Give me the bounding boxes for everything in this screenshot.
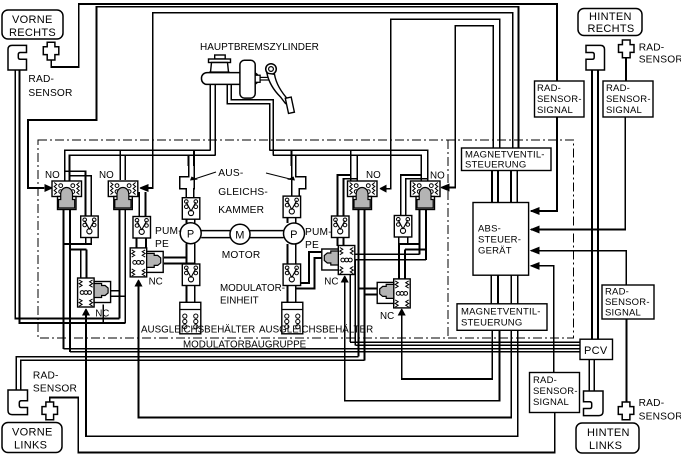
valve NC-a <box>78 278 111 307</box>
svg-text:MODULATORBAUGRUPPE: MODULATORBAUGRUPPE <box>183 340 307 351</box>
arrow into ABS 3 <box>531 247 539 253</box>
svg-text:SENSOR: SENSOR <box>28 88 72 99</box>
valve NO1 <box>52 181 82 210</box>
box VORNE LINKS <box>2 423 62 453</box>
arrow into NO2 <box>140 185 148 191</box>
pipe pump P2 column <box>287 216 289 223</box>
label NC-d <box>380 311 394 322</box>
svg-text:SIGNAL: SIGNAL <box>537 105 573 116</box>
brake pipe branch to NO2 <box>119 150 121 180</box>
wire NC-c solenoid control <box>345 282 500 401</box>
svg-text:SIGNAL: SIGNAL <box>533 397 569 408</box>
motor and pump shafts <box>201 231 283 238</box>
svg-text:RAD-: RAD- <box>537 83 561 94</box>
booster <box>240 60 255 98</box>
box HINTEN RECHTS <box>578 9 642 36</box>
pipe NC-b outlet to reservoir trunk <box>164 257 187 259</box>
svg-text:STEUERUNG: STEUERUNG <box>465 160 526 171</box>
svg-text:PCV: PCV <box>584 345 608 357</box>
svg-text:MODULATOR-: MODULATOR- <box>220 283 285 294</box>
svg-text:RAD-: RAD- <box>606 83 630 94</box>
arrow into NO1 <box>44 185 52 191</box>
pipe NO2 outlet down to front-right wheel line <box>119 210 121 319</box>
label NC-c <box>324 277 338 288</box>
label RAD-SENSOR rear-right <box>639 43 681 66</box>
label MODULATOR-EINHEIT <box>220 283 285 307</box>
svg-text:NC: NC <box>324 277 338 288</box>
brake pipe branch to NO3 <box>350 150 352 181</box>
wire NO2 solenoid control <box>148 13 513 188</box>
svg-text:RECHTS: RECHTS <box>9 27 56 39</box>
svg-text:HAUPTBREMSZYLINDER: HAUPTBREMSZYLINDER <box>200 42 319 53</box>
control arrows into valves <box>44 184 539 315</box>
svg-text:SENSOR-: SENSOR- <box>537 94 582 105</box>
svg-text:P: P <box>187 229 195 241</box>
pipe NO4 outlet down to rear feed rail <box>419 210 421 255</box>
brake pipe left rail to NO1 <box>65 150 211 181</box>
svg-text:KAMMER: KAMMER <box>218 205 264 216</box>
svg-text:NC: NC <box>380 311 394 322</box>
brake pipe master cylinder port 1 down to left valve rail <box>209 85 211 151</box>
label NC-a <box>95 309 109 320</box>
label NO1 <box>45 170 60 181</box>
svg-text:RAD-: RAD- <box>33 371 59 382</box>
wires ABS unit to lower Magnetventilsteuerung <box>490 275 492 304</box>
pipe branch to left compensation chamber <box>188 155 190 166</box>
svg-text:MOTOR: MOTOR <box>222 250 261 261</box>
box ABS-STEUER-GERAET <box>473 203 529 276</box>
pipe NC-a outlet tie to wheel line <box>108 290 120 292</box>
box MAGNETVENTILSTEUERUNG bottom <box>457 304 547 331</box>
svg-text:SENSOR: SENSOR <box>639 412 681 423</box>
pipe NC-d outlet tie <box>359 288 380 290</box>
svg-text:M: M <box>235 230 244 242</box>
svg-text:HINTEN: HINTEN <box>589 11 632 23</box>
arrow into NO4 <box>441 184 450 190</box>
svg-text:AUSGLEICHSBEHÄLTER: AUSGLEICHSBEHÄLTER <box>141 325 255 336</box>
wire NC-a solenoid control <box>86 315 518 436</box>
sensor plus rear right <box>619 40 635 58</box>
box RAD-SENSOR-SIGNAL rear-right <box>603 81 653 117</box>
svg-text:VORNE: VORNE <box>12 14 53 26</box>
svg-text:SENSOR: SENSOR <box>639 55 681 66</box>
svg-text:SENSOR-: SENSOR- <box>605 297 650 308</box>
wire rear-right sensor to signal box <box>625 58 627 81</box>
arrow into NC-d <box>399 309 405 315</box>
reservoir left <box>180 302 201 334</box>
arrow into ABS 2 <box>531 226 539 232</box>
wire NO4 solenoid control <box>449 26 493 188</box>
label NO2 <box>99 170 114 181</box>
svg-text:PUM-: PUM- <box>155 226 182 237</box>
svg-text:PUM-: PUM- <box>305 227 332 238</box>
wire front-right sensor signal box to ABS arrow <box>531 117 557 211</box>
pipe NO1 outlet down with branch to check A and NC-a <box>63 210 65 349</box>
pushrod <box>255 75 260 82</box>
svg-text:NO: NO <box>366 170 381 181</box>
wire front-right sensor to ABS (top run) <box>51 4 557 81</box>
box VORNE RECHTS <box>2 10 63 39</box>
pipe NO3 outlet down to front-left wheel line <box>358 210 360 357</box>
svg-text:NO: NO <box>99 170 114 181</box>
svg-text:NO: NO <box>45 170 60 181</box>
brake pipe right rail to NO4 <box>270 150 428 181</box>
pipe check A to NO1 inlet rail <box>65 171 86 216</box>
svg-text:VORNE: VORNE <box>12 427 53 439</box>
wire rear-left sensor to signal box <box>626 319 628 402</box>
valve NO3 <box>348 181 378 210</box>
pipe rear feed rail to down pair <box>350 254 419 342</box>
sensor plus rear left <box>618 402 634 420</box>
svg-text:AUS-: AUS- <box>218 168 243 179</box>
dash-dot divider between modulator and ECU sections <box>447 140 449 338</box>
svg-text:LINKS: LINKS <box>14 440 47 452</box>
hook wheel front left <box>8 390 28 415</box>
svg-text:STEUER-: STEUER- <box>478 235 521 246</box>
pipe check B up to NO2 <box>138 192 140 216</box>
pipe rear-right wheel to PCV top <box>591 70 593 339</box>
svg-text:RAD-: RAD- <box>28 74 54 85</box>
box RAD-SENSOR-SIGNAL front-right <box>535 81 585 117</box>
check valve D <box>394 216 412 238</box>
pipe check C to NC-c connector <box>337 238 339 246</box>
pipe rear circuit lines into PCV <box>350 341 580 343</box>
wires Magnetventilsteuerung top to ABS unit <box>491 170 493 202</box>
dash-dot border MODULATORBAUGRUPPE <box>38 140 574 338</box>
svg-text:P: P <box>290 229 298 241</box>
check valve A <box>81 216 99 238</box>
arrow into NC-b <box>135 280 141 286</box>
pipe PCV bottom to rear-left wheel <box>588 360 590 392</box>
valve NC-b <box>130 248 163 277</box>
check valve C <box>332 216 350 238</box>
wire front-left signal box to ABS arrow <box>531 266 554 373</box>
valve NO4 <box>411 181 441 210</box>
wire NC-d solenoid control <box>402 315 493 379</box>
pump P1 <box>180 223 201 244</box>
pump P2 <box>284 223 305 244</box>
compensation chamber right <box>292 166 306 196</box>
arrow into NC-c <box>342 276 348 282</box>
box MAGNETVENTILSTEUERUNG top <box>462 148 552 171</box>
label NO3 <box>366 170 381 181</box>
svg-text:RAD-: RAD- <box>639 43 665 54</box>
compensation chamber left <box>180 166 194 198</box>
box RAD-SENSOR-SIGNAL rear-left <box>602 285 654 319</box>
label NC-b <box>149 277 163 288</box>
svg-text:SENSOR: SENSOR <box>33 384 77 395</box>
arrow into ABS 4 <box>531 263 539 269</box>
valve NC-c <box>322 246 355 275</box>
label RAD-SENSOR rear-left <box>639 398 681 423</box>
wire NC-b solenoid control <box>139 286 512 418</box>
svg-text:AUSGLEICHSBEHÄLTER: AUSGLEICHSBEHÄLTER <box>259 325 373 336</box>
wire rear-left signal box to ABS arrow <box>531 251 626 285</box>
pipe check C to NO3 inlet rail <box>338 175 351 216</box>
pipe NC-c outlet to right reservoir trunk <box>296 252 322 283</box>
svg-text:SIGNAL: SIGNAL <box>605 308 641 319</box>
pipe check B to NC-b connector <box>136 238 138 248</box>
svg-text:NC: NC <box>149 277 163 288</box>
check valve pump1 bottom <box>182 264 200 286</box>
svg-text:PE: PE <box>305 240 319 251</box>
label MOTOR <box>222 250 261 261</box>
pipe pump P1 column <box>186 219 188 223</box>
pedal pad <box>285 97 294 113</box>
check valve pump2 bottom <box>283 264 301 286</box>
valve NO2 <box>108 181 138 210</box>
hook wheel rear left <box>584 391 604 416</box>
label MODULATORBAUGRUPPE <box>183 340 307 351</box>
arrow into NO3 <box>380 185 386 191</box>
svg-text:NC: NC <box>95 309 109 320</box>
svg-text:SIGNAL: SIGNAL <box>606 105 642 116</box>
cylinder body <box>202 73 259 85</box>
check valve B <box>133 217 151 239</box>
label PUMPE right <box>305 227 332 251</box>
hook wheel front right <box>8 45 27 70</box>
wire front-left sensor to signal box <box>50 398 555 453</box>
svg-text:SENSOR-: SENSOR- <box>533 386 578 397</box>
brake pipe master cylinder port 2 jog to right rail <box>227 85 269 151</box>
motor M <box>230 224 250 244</box>
label AUSGLEICHSBEHAELTER right <box>259 325 373 336</box>
arrow into ABS 1 <box>531 208 539 214</box>
svg-text:STEUERUNG: STEUERUNG <box>461 318 522 329</box>
svg-text:EINHEIT: EINHEIT <box>220 296 259 307</box>
box PCV <box>580 339 613 359</box>
label NO4 <box>430 171 445 182</box>
svg-text:RAD-: RAD- <box>605 287 629 298</box>
label PUMPE left <box>155 226 182 250</box>
label RAD-SENSOR front-right <box>28 74 72 99</box>
sensor plus front left <box>42 402 58 420</box>
svg-text:GLEICHS-: GLEICHS- <box>218 187 268 198</box>
label RAD-SENSOR front-left <box>33 371 77 395</box>
sensor plus front right <box>43 42 59 60</box>
hook wheel rear right <box>586 45 605 70</box>
box RAD-SENSOR-SIGNAL front-left <box>530 373 580 413</box>
pipe front-left wheel line <box>16 357 358 390</box>
label AUSGLEICHSBEHAELTER left <box>141 325 255 336</box>
svg-text:RAD-: RAD- <box>533 375 557 386</box>
pipe check D to NO4 inlet rail <box>401 175 422 216</box>
svg-text:PE: PE <box>155 239 169 250</box>
pedal arm <box>267 73 289 103</box>
check valve pump2 top <box>283 196 301 218</box>
master brake cylinder assembly <box>200 42 319 113</box>
label AUSGLEICHSKAMMER with arrows <box>190 168 295 216</box>
wire NO1 solenoid control from Magnetventilsteuerung <box>28 7 519 188</box>
pipe branch to right compensation chamber <box>295 155 297 166</box>
box HINTEN LINKS <box>576 423 639 453</box>
svg-text:RECHTS: RECHTS <box>588 23 635 35</box>
svg-text:HINTEN: HINTEN <box>587 427 630 439</box>
svg-text:MAGNETVENTIL-: MAGNETVENTIL- <box>461 307 541 318</box>
reservoir right <box>282 302 303 334</box>
pipe check D and NC-d connectors <box>398 237 400 244</box>
pedal pivot <box>266 64 277 75</box>
valve NC-d <box>377 279 410 308</box>
arrow into NC-a <box>83 309 89 315</box>
svg-text:RAD-: RAD- <box>639 398 665 409</box>
svg-text:LINKS: LINKS <box>589 440 622 452</box>
wire rear-right signal box to ABS arrow <box>531 117 625 230</box>
check valve pump1 top <box>182 198 200 220</box>
reservoir cap <box>215 55 226 59</box>
pipe front-right wheel line <box>15 70 119 319</box>
svg-text:ABS-: ABS- <box>478 224 501 235</box>
wire NO3 solenoid control <box>386 19 500 188</box>
svg-text:NO: NO <box>430 171 445 182</box>
svg-text:GERÄT: GERÄT <box>478 246 512 257</box>
svg-text:SENSOR-: SENSOR- <box>606 94 651 105</box>
